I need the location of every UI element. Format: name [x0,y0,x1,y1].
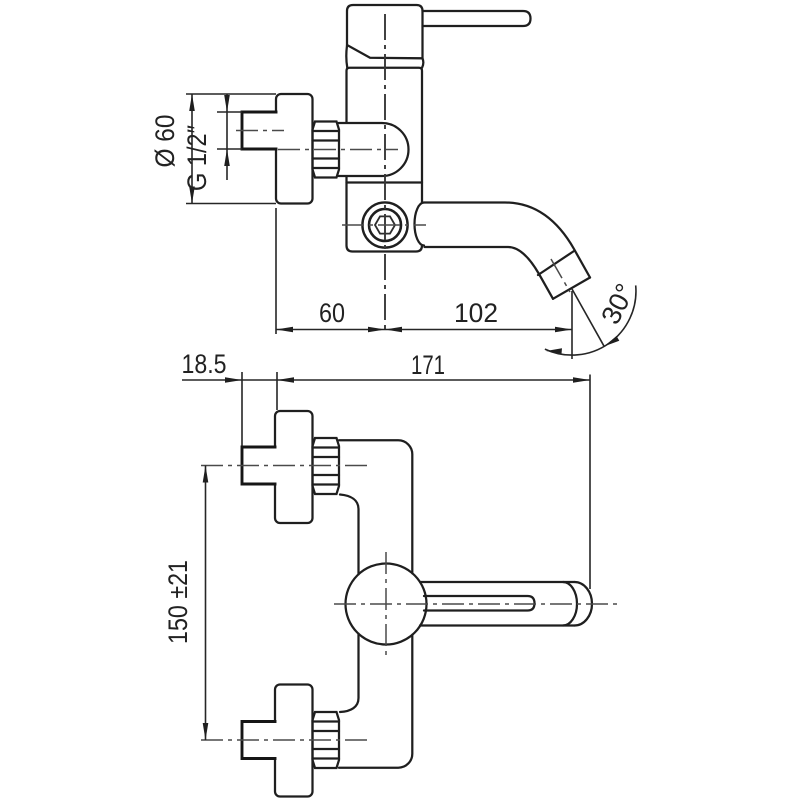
svg-text:Ø 60: Ø 60 [150,115,180,168]
svg-text:G 1/2″: G 1/2″ [182,125,212,191]
svg-text:30°: 30° [595,279,640,329]
svg-text:102: 102 [454,298,498,328]
svg-text:60: 60 [319,298,345,328]
svg-text:150 ±21: 150 ±21 [163,560,193,644]
svg-text:171: 171 [411,350,445,380]
svg-text:18.5: 18.5 [182,349,227,379]
